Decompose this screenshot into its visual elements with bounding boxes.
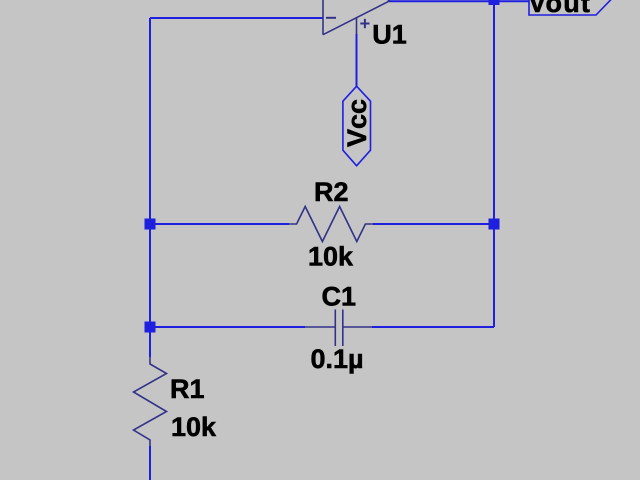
wire: inverting input wire (top-left horizontal) xyxy=(150,17,323,19)
svg-text:R2: R2 xyxy=(314,177,349,207)
wire: R2 left wire xyxy=(150,223,289,225)
node: junction square at R2 right xyxy=(489,219,500,230)
svg-text:C1: C1 xyxy=(322,281,357,311)
svg-text:U1: U1 xyxy=(372,20,407,50)
wire: op-amp output wire (top horizontal) xyxy=(389,0,529,2)
svg-text:0.1µ: 0.1µ xyxy=(311,344,364,374)
node: junction square at C1/R1 left xyxy=(145,322,156,333)
wire: R2 right wire xyxy=(373,223,494,225)
svg-text:Vout: Vout xyxy=(528,0,591,18)
wire: right vertical wire xyxy=(493,1,495,327)
node: junction square at Vout xyxy=(489,0,500,5)
capacitor C1 xyxy=(305,310,372,347)
wire: Vcc supply wire xyxy=(356,34,358,87)
resistor R2 xyxy=(289,207,373,242)
node: junction square at R2 left xyxy=(145,219,156,230)
svg-text:Vcc: Vcc xyxy=(342,99,372,147)
resistor R1 xyxy=(134,357,167,446)
flag Vout (net label) xyxy=(529,0,612,15)
svg-text:10k: 10k xyxy=(171,412,217,442)
flag Vcc (power flag) xyxy=(343,86,371,166)
wire: C1 right wire xyxy=(372,326,494,328)
op-amp U1 xyxy=(323,0,390,35)
svg-text:10k: 10k xyxy=(308,242,354,272)
wire: C1 left wire xyxy=(150,326,305,328)
svg-text:R1: R1 xyxy=(170,374,205,404)
pin label: op-amp V+ supply "+" xyxy=(360,19,369,28)
pin label: op-amp inverting input "-" xyxy=(326,17,336,19)
wire: left vertical feedback wire xyxy=(149,18,151,357)
wire: R1 bottom wire xyxy=(149,446,151,480)
